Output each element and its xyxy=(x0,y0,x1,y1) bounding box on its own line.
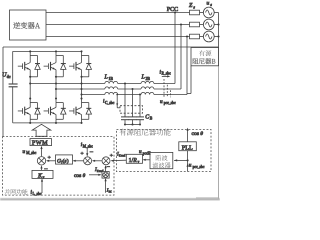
u_pcc measurement taps xyxy=(163,79,165,97)
wire leg3 top stub xyxy=(81,51,83,55)
svg-text:+: + xyxy=(110,153,113,159)
wire filter phase 2 xyxy=(56,88,105,90)
outer system box xyxy=(3,46,219,48)
svg-text:u: u xyxy=(160,99,163,105)
svg-text:L: L xyxy=(141,75,145,81)
wire damper B lead to PCC xyxy=(190,66,192,94)
wire phase b top xyxy=(46,24,190,26)
svg-text:+: + xyxy=(81,151,84,157)
active damper function dashed box xyxy=(117,129,212,171)
svg-text:PWM: PWM xyxy=(32,140,48,147)
summing junction S3 xyxy=(102,157,110,165)
figure bottom border blur xyxy=(0,198,220,200)
svg-text:u: u xyxy=(23,149,26,155)
wire Gi to S1 xyxy=(47,160,55,162)
wire S1 to PWM xyxy=(41,147,43,156)
IGBT upper T3 with diode xyxy=(69,56,91,77)
summing junction S2 xyxy=(84,157,92,165)
notch filter block xyxy=(150,152,173,168)
svg-text:pcc_abc: pcc_abc xyxy=(164,101,176,105)
svg-text:pccH: pccH xyxy=(143,152,151,156)
inverter A box xyxy=(10,10,47,40)
svg-text:R: R xyxy=(132,158,137,164)
grid impedance Zs phase 2 xyxy=(190,22,200,27)
wire leg1 top stub xyxy=(29,51,31,55)
svg-text:θ: θ xyxy=(200,131,203,137)
wire S2 to Gi xyxy=(74,160,84,162)
svg-text:pcc_abc: pcc_abc xyxy=(193,165,205,169)
svg-text:L_abc: L_abc xyxy=(33,192,42,196)
PWM gate signal fat arrow xyxy=(32,124,51,136)
wire leg1 midpoint xyxy=(29,77,31,99)
IGBT lower T4 with diode xyxy=(18,103,40,120)
svg-text:dc: dc xyxy=(7,74,11,79)
grid-connection function dashed box xyxy=(3,137,115,196)
wire 1/Rv to S3 xyxy=(112,159,127,161)
wire capacitor star bus xyxy=(125,124,140,126)
AC source us phase 3 xyxy=(203,31,214,42)
wire u_pcc into junction xyxy=(187,160,189,171)
wire S3 to S2 xyxy=(93,160,102,162)
svg-text:): ) xyxy=(67,157,69,164)
virtual resistor dashed box xyxy=(120,106,143,114)
wire Kv to S1 xyxy=(41,167,43,171)
svg-text:u: u xyxy=(207,1,210,7)
svg-text:Dref: Dref xyxy=(119,154,126,158)
wire right neutral bus xyxy=(218,13,220,67)
IGBT lower T6 with diode xyxy=(69,103,91,120)
AC source us phase 2 xyxy=(203,19,214,30)
IGBT lower T5 with diode xyxy=(44,103,66,120)
summing junction S1 xyxy=(37,157,45,165)
capacitor bank CB xyxy=(124,84,126,117)
wire PLL input xyxy=(187,151,189,161)
svg-text:M: M xyxy=(109,190,112,194)
PWM block xyxy=(30,139,52,146)
wire PCC drop a xyxy=(174,13,176,84)
wire filter phase 1 xyxy=(30,83,105,85)
wire junction to notch xyxy=(174,159,188,161)
wire M4 to S3 xyxy=(105,166,107,171)
svg-text:C: C xyxy=(145,114,149,120)
wire phase c top xyxy=(46,36,190,38)
active damper B box xyxy=(191,48,219,66)
gain 1/Rv block xyxy=(126,154,142,163)
multiplier M4 (boxed) xyxy=(102,172,109,179)
AC source us phase 1 xyxy=(203,7,214,18)
svg-text:u: u xyxy=(189,162,192,168)
controller Gi(s) block xyxy=(56,155,73,164)
wire leg1 lower stubs xyxy=(29,99,31,103)
IGBT upper T1 with diode xyxy=(18,56,40,77)
DC link capacitor xyxy=(12,51,14,84)
svg-text:R_abc: R_abc xyxy=(162,72,172,76)
svg-text:L: L xyxy=(104,75,108,81)
wire phase a top xyxy=(46,12,190,14)
wire PCC drop c xyxy=(186,37,188,95)
label iC_abc with arrow xyxy=(116,95,118,108)
wire leg2 lower stubs xyxy=(55,99,57,103)
svg-text:PLL: PLL xyxy=(182,144,193,151)
wire notch to 1/Rv xyxy=(144,159,150,161)
DC bus positive rail xyxy=(13,50,82,52)
svg-text:2B: 2B xyxy=(146,77,151,81)
wire leg2 top stub xyxy=(55,51,57,55)
DC bus negative rail xyxy=(13,122,82,124)
wire leg2 midpoint xyxy=(55,77,57,99)
inductor L2B xyxy=(141,81,154,83)
svg-text:C_abc: C_abc xyxy=(105,101,115,105)
svg-text:cos: cos xyxy=(74,173,81,179)
wire leg3 lower stubs xyxy=(81,99,83,103)
svg-text:PCC: PCC xyxy=(167,7,178,13)
svg-text:M_abc: M_abc xyxy=(26,151,36,155)
wire leg3 midpoint xyxy=(81,77,83,99)
svg-text:cos: cos xyxy=(192,131,199,137)
wire iL_abc into Kv xyxy=(41,180,43,193)
wire IM into M4 xyxy=(105,179,107,193)
grid impedance Zs phase 3 xyxy=(190,34,200,39)
svg-text:−: − xyxy=(90,149,94,156)
inductor L1B xyxy=(105,81,118,83)
wire PLL cos output xyxy=(187,129,189,142)
svg-text:1B: 1B xyxy=(109,77,114,81)
svg-text:θ: θ xyxy=(83,173,86,179)
IGBT upper T2 with diode xyxy=(44,56,66,77)
wire filter phase 3 xyxy=(82,94,105,96)
wire PCC drop b xyxy=(180,25,182,90)
PLL block xyxy=(179,142,197,151)
gain Kv block xyxy=(32,170,53,178)
grid impedance Zs phase 1 xyxy=(190,10,200,15)
